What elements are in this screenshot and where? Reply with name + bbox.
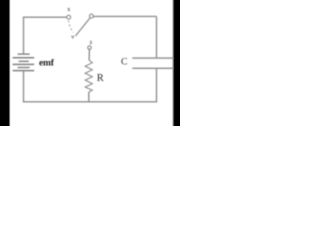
wire right vertical lower bbox=[156, 68, 158, 102]
capacitor C top plate bbox=[132, 57, 173, 59]
switch motion dashed arc bbox=[69, 20, 74, 32]
svg-text:emf: emf bbox=[39, 59, 55, 69]
switch terminal z circle bbox=[88, 46, 91, 49]
wire top-right segment bbox=[93, 15, 156, 17]
battery emf plates bbox=[13, 54, 35, 71]
wire bottom rail bbox=[23, 101, 157, 103]
wire left vertical bbox=[23, 17, 25, 55]
resistor R zigzag bbox=[85, 60, 92, 92]
switch blade bbox=[75, 18, 90, 37]
wire resistor to bottom rail bbox=[88, 92, 90, 102]
switch pivot circle bbox=[90, 14, 94, 18]
svg-text:C: C bbox=[121, 57, 127, 67]
svg-text:z: z bbox=[90, 39, 93, 46]
switch motion arrowhead bbox=[71, 35, 73, 38]
switch terminal x circle bbox=[67, 15, 71, 19]
wire top-left segment bbox=[23, 16, 66, 18]
svg-text:R: R bbox=[97, 73, 104, 84]
wire right vertical upper bbox=[156, 16, 158, 58]
wire battery to bottom bbox=[23, 71, 25, 103]
capacitor C bottom plate bbox=[132, 67, 173, 69]
wire switch z to resistor bbox=[88, 49, 90, 60]
